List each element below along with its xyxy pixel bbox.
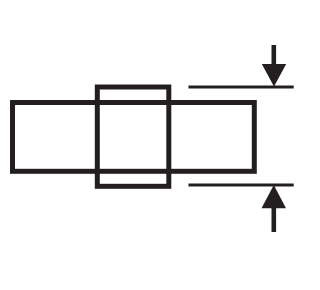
up arrow shaft — [271, 206, 276, 232]
up arrow head — [262, 185, 287, 208]
down arrow head — [262, 64, 286, 87]
wide horizontal panel (outline) — [13, 103, 255, 172]
central vertical panel (outline) — [97, 87, 169, 186]
down arrow shaft — [271, 45, 276, 66]
top reference line — [189, 86, 294, 89]
bottom reference line — [189, 184, 294, 187]
